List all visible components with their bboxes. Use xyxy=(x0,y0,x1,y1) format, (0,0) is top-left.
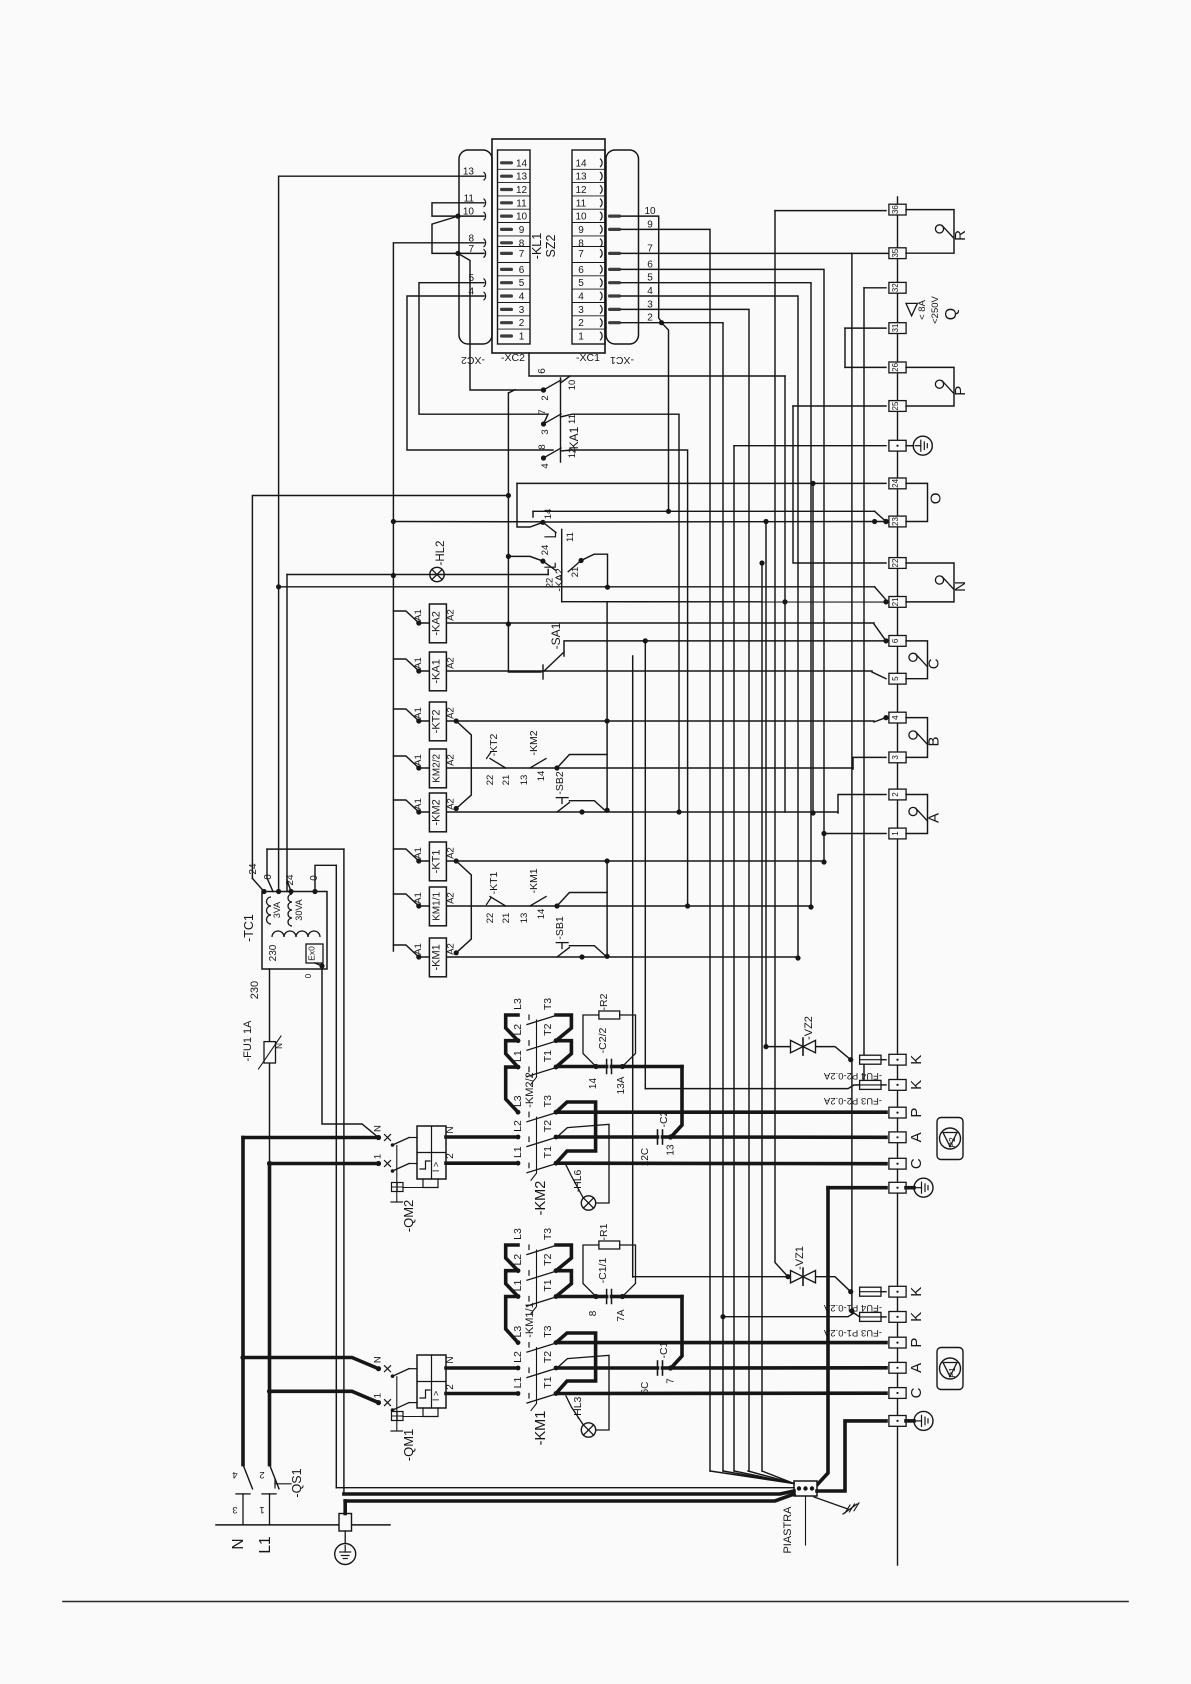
svg-text:-XC1: -XC1 xyxy=(610,354,634,366)
svg-text:4: 4 xyxy=(578,292,584,303)
svg-text:21: 21 xyxy=(501,913,512,924)
svg-text:-KM1/1: -KM1/1 xyxy=(524,1302,536,1337)
svg-text:A2: A2 xyxy=(446,707,457,719)
svg-text:N: N xyxy=(445,1356,456,1363)
svg-text:11: 11 xyxy=(565,532,576,542)
svg-text:31: 31 xyxy=(891,323,900,332)
svg-text:3: 3 xyxy=(232,1504,237,1515)
svg-text:22: 22 xyxy=(891,558,900,567)
svg-text:<250V: <250V xyxy=(930,295,941,323)
svg-text:K: K xyxy=(908,1287,925,1297)
svg-text:3: 3 xyxy=(891,755,900,760)
svg-text:5: 5 xyxy=(519,278,525,289)
svg-text:P: P xyxy=(908,1338,925,1348)
svg-text:-XC2: -XC2 xyxy=(501,352,525,364)
svg-text:25: 25 xyxy=(891,401,900,410)
svg-text:14: 14 xyxy=(536,909,547,920)
svg-text:14: 14 xyxy=(536,771,547,782)
svg-text:-KT2: -KT2 xyxy=(488,733,500,756)
svg-text:-TC1: -TC1 xyxy=(242,914,256,942)
svg-text:21: 21 xyxy=(501,775,512,786)
svg-text:9: 9 xyxy=(578,225,584,236)
svg-text:-QS1: -QS1 xyxy=(290,1468,304,1497)
svg-text:A1: A1 xyxy=(413,847,424,859)
svg-text:L2: L2 xyxy=(512,1254,524,1266)
svg-text:L2: L2 xyxy=(512,1120,524,1132)
svg-text:T3: T3 xyxy=(542,1228,554,1240)
svg-text:P2: P2 xyxy=(947,1137,957,1148)
svg-text:10: 10 xyxy=(575,212,587,223)
svg-text:L3: L3 xyxy=(512,1228,524,1240)
svg-text:-KA2: -KA2 xyxy=(554,568,566,592)
svg-text:I >: I > xyxy=(431,1391,441,1401)
svg-text:11: 11 xyxy=(516,198,527,209)
svg-text:13: 13 xyxy=(575,172,587,183)
svg-text:A1: A1 xyxy=(413,609,424,621)
svg-text:K: K xyxy=(908,1055,925,1065)
svg-text:21: 21 xyxy=(570,567,581,578)
svg-text:1: 1 xyxy=(578,332,584,343)
svg-text:A1: A1 xyxy=(413,943,424,955)
svg-text:14: 14 xyxy=(516,158,528,169)
svg-text:T1: T1 xyxy=(542,1050,554,1062)
svg-text:C: C xyxy=(926,658,943,669)
svg-text:A2: A2 xyxy=(446,609,457,621)
svg-text:24: 24 xyxy=(540,545,551,556)
svg-text:13A: 13A xyxy=(616,1076,627,1094)
svg-text:K: K xyxy=(908,1312,925,1322)
svg-text:B: B xyxy=(926,736,943,746)
svg-text:T1: T1 xyxy=(542,1146,554,1158)
svg-text:A2: A2 xyxy=(446,754,457,766)
svg-text:P: P xyxy=(908,1108,925,1118)
svg-text:-C2/2: -C2/2 xyxy=(597,1028,609,1054)
svg-text:T1: T1 xyxy=(542,1279,554,1291)
svg-text:L2: L2 xyxy=(512,1024,524,1036)
svg-text:-VZ2: -VZ2 xyxy=(803,1016,815,1040)
svg-text:-KM2: -KM2 xyxy=(528,730,540,755)
svg-text:P: P xyxy=(952,386,969,396)
svg-text:1: 1 xyxy=(373,1393,384,1398)
svg-text:35: 35 xyxy=(891,248,900,257)
svg-text:4: 4 xyxy=(232,1469,237,1480)
svg-text:1: 1 xyxy=(519,332,525,343)
svg-text:23: 23 xyxy=(891,517,900,526)
svg-text:Ex0: Ex0 xyxy=(307,946,317,961)
svg-text:3: 3 xyxy=(578,305,584,316)
svg-text:L2: L2 xyxy=(512,1351,524,1363)
svg-text:21: 21 xyxy=(891,597,900,606)
svg-text:6: 6 xyxy=(578,265,584,276)
svg-text:9: 9 xyxy=(519,225,525,236)
svg-text:-C1/1: -C1/1 xyxy=(597,1258,609,1284)
svg-text:-FU3 P1-0.2A: -FU3 P1-0.2A xyxy=(823,1327,882,1338)
svg-text:C: C xyxy=(908,1158,925,1169)
svg-text:A2: A2 xyxy=(446,657,457,669)
svg-text:-QM1: -QM1 xyxy=(401,1429,416,1462)
svg-text:7: 7 xyxy=(578,249,584,260)
svg-text:2: 2 xyxy=(445,1153,456,1159)
svg-text:-KM1: -KM1 xyxy=(528,868,540,893)
svg-text:7: 7 xyxy=(519,249,525,260)
svg-text:10: 10 xyxy=(516,212,528,223)
svg-text:T3: T3 xyxy=(542,1325,554,1337)
svg-text:N: N xyxy=(373,1356,384,1363)
svg-text:36: 36 xyxy=(891,205,900,214)
svg-text:-KM1: -KM1 xyxy=(430,944,442,970)
svg-text:C: C xyxy=(908,1387,925,1398)
svg-text:A2: A2 xyxy=(446,847,457,859)
svg-text:I >: I > xyxy=(431,1162,441,1172)
svg-text:KM2/2: KM2/2 xyxy=(431,754,442,783)
svg-text:-XC1: -XC1 xyxy=(576,352,600,364)
svg-text:A1: A1 xyxy=(413,657,424,669)
svg-text:2: 2 xyxy=(891,792,900,797)
svg-text:-XC2: -XC2 xyxy=(461,354,485,366)
svg-text:8: 8 xyxy=(519,238,525,249)
svg-text:T3: T3 xyxy=(542,998,554,1010)
svg-text:-FU1 1A: -FU1 1A xyxy=(242,1020,254,1062)
svg-text:-KM2: -KM2 xyxy=(533,1181,549,1216)
svg-text:12: 12 xyxy=(516,185,528,196)
svg-text:8: 8 xyxy=(537,444,548,449)
svg-text:O: O xyxy=(928,493,945,505)
svg-text:P1: P1 xyxy=(947,1367,957,1378)
svg-text:-SB2: -SB2 xyxy=(554,771,566,795)
svg-text:N: N xyxy=(230,1538,247,1549)
svg-text:T2: T2 xyxy=(542,1253,554,1265)
svg-text:2: 2 xyxy=(259,1469,264,1480)
svg-text:2: 2 xyxy=(578,318,584,329)
svg-text:T2: T2 xyxy=(542,1023,554,1035)
svg-text:T2: T2 xyxy=(542,1120,554,1132)
svg-text:PIASTRA: PIASTRA xyxy=(782,1506,794,1554)
svg-text:L1: L1 xyxy=(512,1280,524,1292)
svg-text:-KA1: -KA1 xyxy=(430,659,442,683)
svg-text:T2: T2 xyxy=(542,1351,554,1363)
svg-text:L1: L1 xyxy=(512,1050,524,1062)
svg-text:24: 24 xyxy=(285,874,296,886)
svg-text:14: 14 xyxy=(588,1078,599,1090)
svg-text:N: N xyxy=(275,1043,284,1049)
svg-text:K: K xyxy=(908,1080,925,1090)
svg-text:10: 10 xyxy=(567,380,578,391)
svg-text:-FU4 P2-0.2A: -FU4 P2-0.2A xyxy=(823,1070,882,1081)
svg-text:L1: L1 xyxy=(257,1536,274,1553)
svg-text:0: 0 xyxy=(304,973,313,978)
svg-text:N: N xyxy=(445,1126,456,1133)
svg-text:5: 5 xyxy=(891,676,900,681)
svg-text:2: 2 xyxy=(445,1384,456,1390)
svg-text:R: R xyxy=(952,230,969,241)
svg-text:6: 6 xyxy=(519,265,525,276)
svg-text:22: 22 xyxy=(485,913,496,924)
svg-text:1: 1 xyxy=(891,831,900,836)
svg-text:KM1/1: KM1/1 xyxy=(431,892,442,921)
svg-text:L1: L1 xyxy=(512,1146,524,1158)
svg-text:230: 230 xyxy=(249,981,261,999)
svg-text:32: 32 xyxy=(891,283,900,292)
svg-text:Q: Q xyxy=(943,308,960,320)
svg-text:-SB1: -SB1 xyxy=(554,916,566,940)
svg-text:7: 7 xyxy=(666,1378,677,1384)
svg-text:5: 5 xyxy=(578,278,584,289)
svg-text:8: 8 xyxy=(588,1310,599,1316)
svg-text:11: 11 xyxy=(576,198,587,209)
svg-text:-KM2/2: -KM2/2 xyxy=(524,1072,536,1107)
svg-text:A1: A1 xyxy=(413,707,424,719)
svg-text:L1: L1 xyxy=(512,1377,524,1389)
svg-text:3VA: 3VA xyxy=(272,902,282,918)
svg-text:6: 6 xyxy=(891,638,900,643)
svg-text:L3: L3 xyxy=(512,1326,524,1338)
svg-text:24: 24 xyxy=(248,863,259,875)
svg-text:A: A xyxy=(908,1363,925,1373)
svg-text:A1: A1 xyxy=(413,754,424,766)
svg-text:-KT1: -KT1 xyxy=(430,849,442,873)
svg-text:3: 3 xyxy=(519,305,525,316)
svg-text:26: 26 xyxy=(891,362,900,371)
svg-text:-FU3 P2-0.2A: -FU3 P2-0.2A xyxy=(823,1095,882,1106)
svg-text:-VZ1: -VZ1 xyxy=(794,1246,806,1270)
svg-text:A1: A1 xyxy=(413,798,424,810)
svg-text:7A: 7A xyxy=(616,1309,627,1322)
svg-text:< 8A: < 8A xyxy=(917,299,928,319)
svg-text:2: 2 xyxy=(540,395,551,400)
svg-text:0: 0 xyxy=(263,874,274,880)
svg-text:4: 4 xyxy=(891,715,900,720)
svg-text:-R1: -R1 xyxy=(598,1223,610,1240)
svg-text:-KM1: -KM1 xyxy=(533,1411,549,1446)
svg-text:N: N xyxy=(373,1125,384,1132)
svg-text:-KT1: -KT1 xyxy=(488,871,500,894)
svg-text:-R2: -R2 xyxy=(598,993,610,1010)
svg-text:4: 4 xyxy=(540,463,551,468)
svg-text:8: 8 xyxy=(578,238,584,249)
svg-text:24: 24 xyxy=(891,478,900,487)
svg-text:30VA: 30VA xyxy=(294,899,304,920)
svg-text:13: 13 xyxy=(516,172,528,183)
svg-text:7: 7 xyxy=(537,409,548,414)
svg-text:-KA1: -KA1 xyxy=(567,426,581,453)
svg-text:13: 13 xyxy=(666,1144,677,1156)
svg-text:N: N xyxy=(952,581,969,592)
svg-text:A: A xyxy=(908,1132,925,1142)
svg-text:-HL2: -HL2 xyxy=(435,541,447,566)
svg-text:-KT2: -KT2 xyxy=(430,709,442,733)
svg-text:14: 14 xyxy=(543,509,554,520)
svg-text:2: 2 xyxy=(519,318,525,329)
svg-text:1: 1 xyxy=(259,1504,264,1515)
svg-text:L3: L3 xyxy=(512,998,524,1010)
svg-text:T3: T3 xyxy=(542,1095,554,1107)
svg-text:14: 14 xyxy=(575,158,587,169)
svg-text:-KM2: -KM2 xyxy=(430,799,442,825)
svg-text:22: 22 xyxy=(485,775,496,786)
svg-text:1: 1 xyxy=(373,1154,384,1159)
svg-text:6: 6 xyxy=(537,368,548,374)
svg-text:-SA1: -SA1 xyxy=(549,622,563,649)
svg-text:3: 3 xyxy=(540,429,551,434)
svg-text:12: 12 xyxy=(575,185,587,196)
svg-text:-QM2: -QM2 xyxy=(401,1200,416,1233)
svg-text:13: 13 xyxy=(519,775,530,786)
svg-text:T1: T1 xyxy=(542,1376,554,1388)
svg-text:-KA2: -KA2 xyxy=(430,611,442,635)
svg-text:L3: L3 xyxy=(512,1095,524,1107)
svg-text:-KL1: -KL1 xyxy=(530,233,544,259)
svg-text:4: 4 xyxy=(519,292,525,303)
svg-text:230: 230 xyxy=(268,944,279,961)
svg-text:A1: A1 xyxy=(413,892,424,904)
svg-text:13: 13 xyxy=(519,913,530,924)
svg-text:A2: A2 xyxy=(446,892,457,904)
svg-text:SZ2: SZ2 xyxy=(544,234,558,257)
svg-text:A: A xyxy=(926,813,943,823)
